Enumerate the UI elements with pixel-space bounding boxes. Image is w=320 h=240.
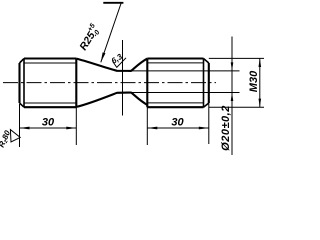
left end chamfer line: [23, 59, 25, 108]
left 30 dimension line: [20, 127, 77, 129]
left end chamfer diagonal bottom: [20, 103, 25, 107]
left 30 extension line (face): [19, 104, 21, 147]
waist dia extension line bottom: [122, 92, 240, 94]
roughness Rz80 triangle mark: [10, 130, 20, 142]
waist dia dimension line: [231, 37, 233, 156]
svg-text:30: 30: [171, 117, 184, 129]
right end chamfer diagonal bottom: [204, 103, 209, 107]
M30 extension line bottom: [209, 106, 264, 108]
left thread root line top: [24, 62, 76, 64]
arrow M30 top: [259, 58, 262, 67]
left 30 extension line (runout): [75, 107, 77, 145]
waist dia extension line top: [122, 70, 240, 72]
shank fillet top profile: [76, 59, 147, 71]
right thread root line bottom: [147, 102, 203, 104]
roughness 6,3 check mark: [113, 58, 126, 68]
svg-text:M30: M30: [248, 70, 260, 92]
left thread root line bottom: [24, 102, 76, 104]
arrow right30 left: [147, 127, 157, 130]
right thread root line top: [147, 62, 203, 64]
arrow waist dia top: [231, 62, 234, 71]
M30 dimension line: [259, 58, 261, 107]
left thread end face: [18, 63, 20, 103]
radius center mark bar: [103, 2, 123, 4]
right end chamfer diagonal top: [204, 59, 209, 64]
svg-text:Ø20±0,2: Ø20±0,2: [220, 105, 232, 151]
left thread bottom edge: [24, 106, 76, 108]
right 30 extension line (face): [208, 103, 210, 144]
arrow left30 right: [66, 127, 76, 130]
shank fillet bottom profile: [76, 93, 147, 107]
arrow left30 left: [20, 127, 30, 130]
right thread top edge: [147, 57, 203, 59]
arrow right30 right: [199, 127, 209, 130]
stud axis extension line at waist: [122, 40, 124, 116]
centerline: [3, 82, 216, 84]
radius R25 leader line: [101, 4, 121, 63]
M30 extension line top: [209, 57, 264, 59]
svg-text:30: 30: [42, 117, 55, 129]
left thread runout edge: [75, 59, 77, 108]
right thread runout edge: [146, 59, 148, 108]
arrow waist dia bottom: [231, 93, 234, 102]
right 30 dimension line: [147, 127, 209, 129]
right end chamfer line: [203, 59, 205, 108]
left end chamfer diagonal top: [20, 59, 25, 64]
right thread end face: [208, 63, 210, 103]
right 30 extension line (runout): [146, 107, 148, 145]
right thread bottom edge: [147, 106, 203, 108]
arrow R25 leader: [101, 52, 106, 62]
arrow M30 bottom: [259, 99, 262, 108]
left thread top edge: [24, 57, 76, 59]
